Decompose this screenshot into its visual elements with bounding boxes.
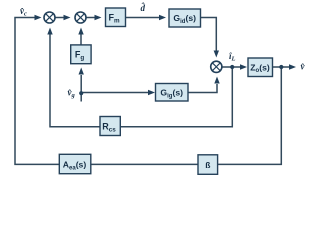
- svg-text:ß: ß: [205, 160, 210, 170]
- svg-text:d̂: d̂: [141, 2, 146, 13]
